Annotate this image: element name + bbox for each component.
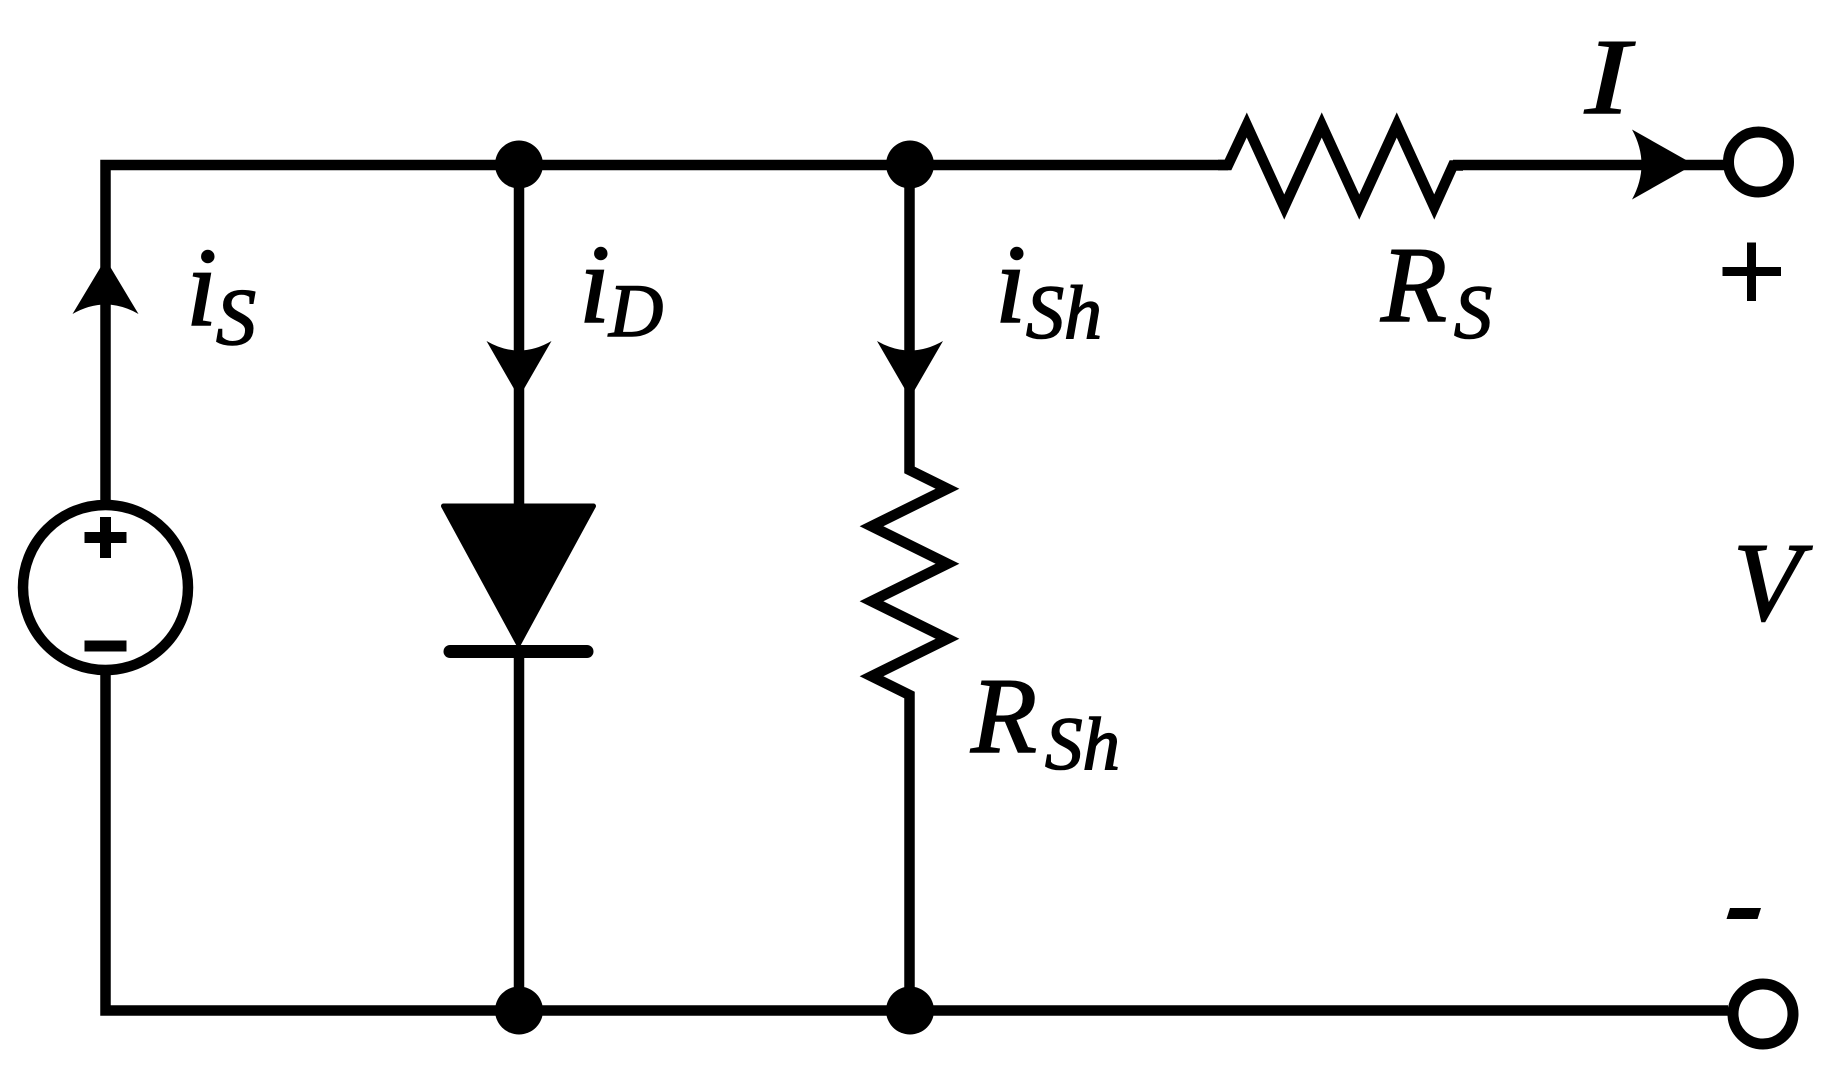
svg-text:R: R [970, 657, 1037, 776]
wire: shunt branch upper [872, 165, 948, 1011]
plus sign (output polarity) [1723, 267, 1782, 276]
svg-text:R: R [1380, 226, 1447, 345]
arrow I (current out, pointing right) [1632, 130, 1694, 200]
svg-text:S: S [1454, 271, 1492, 355]
wire: diode branch lower [514, 650, 525, 1011]
diode D1 (filled triangle + cathode bar) [444, 506, 594, 644]
resistor RS (series, horizontal zigzag) [1218, 125, 1463, 207]
svg-text:i: i [186, 226, 217, 350]
svg-text:Sh: Sh [1026, 271, 1102, 355]
svg-text:I: I [1584, 18, 1636, 137]
node C (bottom, diode branch) [495, 987, 543, 1035]
svg-text:i: i [579, 223, 610, 347]
wire: left vertical + top rail to series resistor [106, 165, 1229, 505]
wire: left vertical lower + bottom rail [106, 672, 1729, 1011]
wire: RS to positive terminal [1453, 160, 1724, 171]
svg-text:i: i [995, 223, 1026, 347]
svg-text:V: V [1733, 521, 1813, 645]
node B (top, shunt branch) [886, 141, 934, 189]
current source U1 (circle with + and -) [23, 505, 188, 670]
wire: diode branch upper [514, 165, 525, 507]
terminal - (open circle, bottom right) [1733, 984, 1793, 1044]
terminal + (open circle, top right) [1729, 132, 1789, 192]
svg-text:Sh: Sh [1045, 703, 1120, 786]
arrow iSh (shunt current, pointing down) [877, 341, 943, 398]
node A (top, diode branch) [495, 141, 543, 189]
arrow iD (diode current, pointing down) [487, 341, 552, 398]
svg-text:D: D [608, 270, 663, 353]
svg-text:S: S [216, 274, 256, 362]
minus sign (output polarity) [1727, 908, 1762, 919]
node D (bottom, shunt branch) [886, 987, 934, 1035]
arrow iS (source current, pointing up) [73, 259, 139, 314]
